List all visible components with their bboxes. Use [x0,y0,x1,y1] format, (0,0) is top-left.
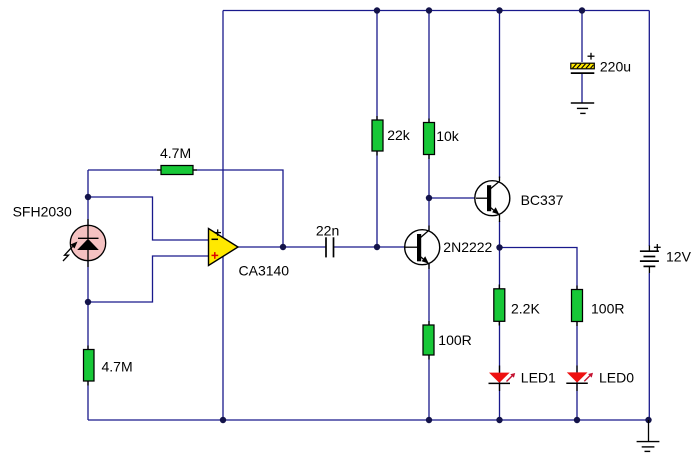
wire emitter node across to 100R branch [500,248,578,421]
node top rail / BC337 collector [496,7,502,13]
wire non-inverting input from left column [88,256,209,302]
wire BC337 emitter down to node [499,221,501,248]
ground (below 220u) [571,103,594,113]
wire 100R (emitter) lead stubs [428,321,430,325]
wire BC337 base from 10k column [429,197,480,199]
node 22k / 22n / 2N2222 base [374,244,380,250]
wire feedback 4.7M path from output node [88,170,283,247]
resistor R5 100R (emitter of 2N2222) [423,325,434,355]
wire 10k / 2N2222 column x=429 [428,11,430,421]
capacitor C2 220u electrolytic [571,53,595,73]
LED0 [566,366,593,392]
node bottom rail / ground [645,417,651,423]
battery B1 12V [640,244,661,273]
svg-text:2N2222: 2N2222 [443,239,492,255]
svg-text:22k: 22k [387,127,411,143]
transistor Q1 2N2222 [405,226,440,270]
svg-text:12V: 12V [666,248,692,264]
svg-text:100R: 100R [438,332,471,348]
resistor R1 4.7M horizontal (feedback) [161,166,193,175]
resistor R7 100R (LED0 branch) [572,290,583,322]
wire 220u capacitor to ground [581,74,583,103]
node op-amp output / feedback [280,244,286,250]
svg-text:LED1: LED1 [521,369,556,385]
svg-text:2.2K: 2.2K [511,300,540,316]
resistor R2 4.7M vertical (lower left) [84,350,95,382]
svg-text:SFH2030: SFH2030 [13,203,72,219]
ground (bottom right) [637,420,660,451]
wire 4.7M horizontal lead stubs [157,169,161,171]
wire right rail upper (to battery +) [648,11,650,247]
node inverting input tap [85,194,91,200]
node bottom rail / LED1 [496,417,502,423]
svg-text:22n: 22n [316,222,339,238]
wire 220u capacitor drop x=582 [581,11,583,63]
node top rail / 220u [579,7,585,13]
wire right rail lower (battery - to bottom) [648,273,650,420]
wire 22n capacitor to 2N2222 base [334,246,406,248]
node top rail / 10k [426,7,432,13]
LED1 [489,366,516,392]
wire BC337 collector column x=499.5 [499,11,501,179]
wire 22k column x=377 [376,11,378,248]
svg-text:10k: 10k [436,128,460,144]
capacitor C1 22n [326,237,334,257]
svg-text:LED0: LED0 [599,369,634,385]
svg-text:100R: 100R [591,300,624,316]
node bottom rail / supply drop [220,417,226,423]
resistor R3 22k [372,120,383,151]
node bottom rail / LED0 [574,417,580,423]
svg-text:BC337: BC337 [521,192,564,208]
op-amp U1 CA3140 [209,229,239,266]
wire op-amp output to 22n capacitor [238,246,326,248]
transistor Q2 BC337 [475,177,510,223]
wire 22k lead stubs [376,116,378,120]
wire op-amp supply drop x=223 [222,11,224,421]
wire 4.7M vertical lead stubs [87,346,89,350]
node 10k / BC337 base / 2N2222 collector [426,195,432,201]
wire 100R (LED0) lead stubs [576,286,578,290]
svg-text:4.7M: 4.7M [160,145,191,161]
wire left column x=88 (feedback node down through photodiode and 4.7M) [87,170,89,420]
wire 2.2K lead stubs [498,285,500,289]
resistor R6 2.2K [494,289,505,322]
node non-inverting input tap [85,299,91,305]
svg-text:220u: 220u [600,58,631,74]
photodiode D1 SFH2030 [63,219,106,267]
svg-text:CA3140: CA3140 [239,263,290,279]
wire bottom ground rail [88,419,649,421]
wire top supply rail [223,10,649,12]
svg-text:4.7M: 4.7M [102,359,133,375]
wire 10k lead stubs [428,119,430,123]
wire inverting input from left column [88,197,209,240]
wire 2.2K LED1 column x=499 [499,248,501,421]
resistor R4 10k [424,123,435,155]
node bottom rail / 100R [426,417,432,423]
node BC337 emitter / 2.2K / 100R branch [496,244,502,250]
node top rail / 22k [374,7,380,13]
